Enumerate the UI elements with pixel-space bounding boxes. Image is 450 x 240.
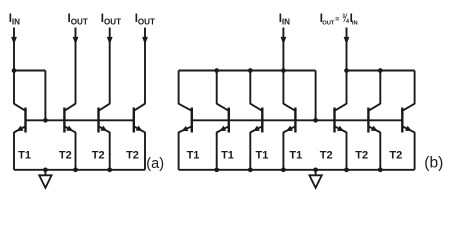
svg-text:(b): (b) (424, 155, 443, 172)
svg-text:T2: T2 (92, 150, 105, 162)
svg-text:T1: T1 (18, 150, 31, 162)
svg-text:IOUT: IOUT (135, 13, 155, 27)
svg-text:IOUT: IOUT (68, 13, 88, 27)
svg-text:IOUT=IIN: IOUT=IIN (320, 13, 358, 27)
svg-text:(a): (a) (146, 156, 164, 172)
svg-text:T1: T1 (187, 150, 200, 162)
svg-text:T2: T2 (389, 150, 402, 162)
svg-text:IOUT: IOUT (101, 13, 121, 27)
svg-text:T2: T2 (59, 150, 72, 162)
svg-text:IIN: IIN (279, 13, 290, 27)
svg-text:T2: T2 (126, 150, 139, 162)
svg-text:IIN: IIN (9, 13, 20, 27)
svg-text:T1: T1 (289, 150, 302, 162)
svg-text:T1: T1 (221, 150, 234, 162)
svg-text:T2: T2 (320, 150, 333, 162)
svg-text:T1: T1 (255, 150, 268, 162)
svg-text:¾: ¾ (342, 12, 349, 25)
svg-text:T2: T2 (355, 150, 368, 162)
